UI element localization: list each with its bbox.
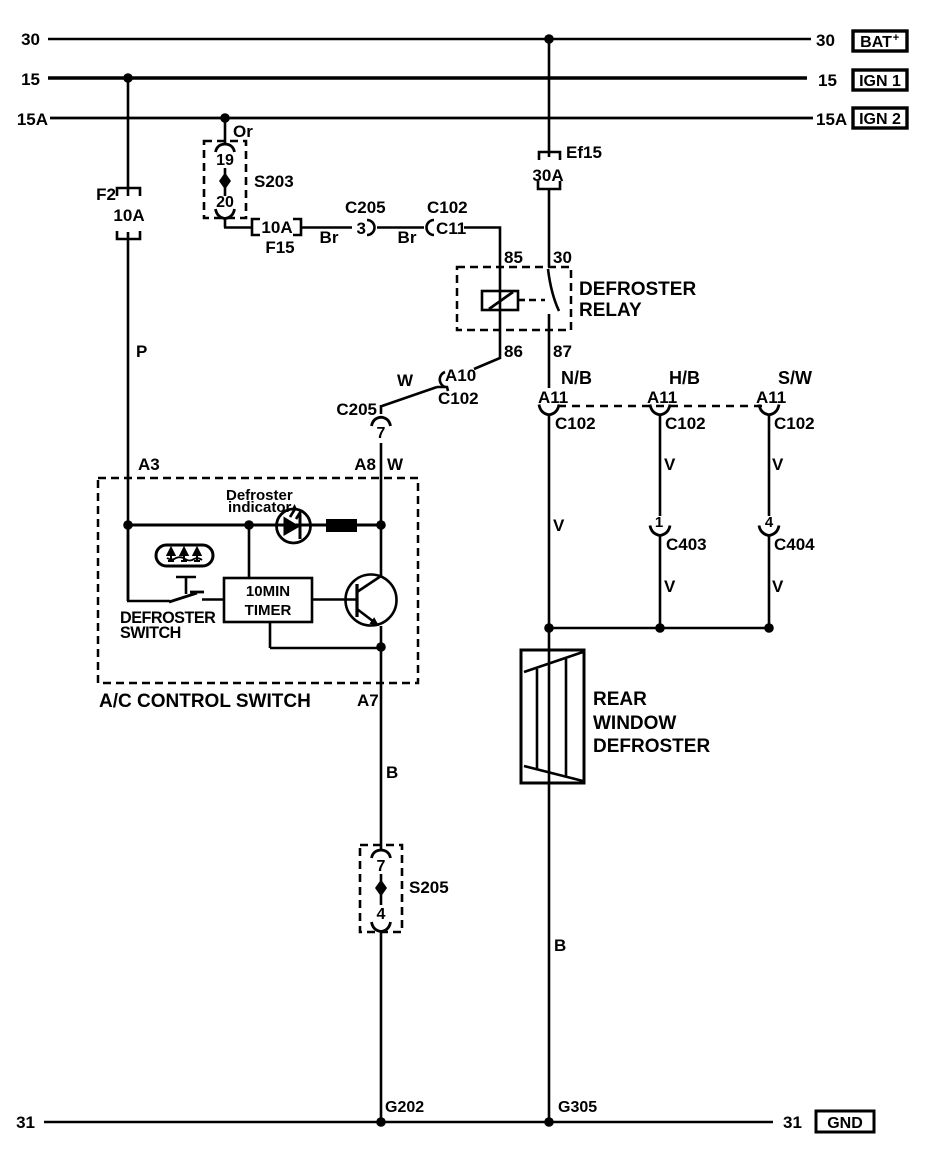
svg-text:H/B: H/B [669, 368, 700, 388]
svg-text:10A: 10A [261, 218, 292, 237]
svg-text:15: 15 [21, 70, 40, 89]
svg-text:1: 1 [655, 514, 663, 531]
svg-text:C102: C102 [438, 389, 479, 408]
svg-text:W: W [387, 455, 404, 474]
svg-text:V: V [664, 577, 676, 596]
svg-text:A7: A7 [357, 691, 379, 710]
svg-text:Ef15: Ef15 [566, 143, 602, 162]
svg-text:A11: A11 [647, 388, 677, 407]
svg-text:S203: S203 [254, 172, 294, 191]
svg-text:Br: Br [398, 228, 417, 247]
svg-text:V: V [772, 455, 784, 474]
svg-text:C102: C102 [555, 414, 596, 433]
svg-text:15: 15 [818, 71, 837, 90]
svg-text:10A: 10A [113, 206, 144, 225]
svg-text:C102: C102 [427, 198, 468, 217]
svg-text:20: 20 [216, 194, 234, 211]
svg-text:A11: A11 [756, 388, 786, 407]
svg-text:P: P [136, 342, 147, 361]
svg-text:C11: C11 [436, 219, 466, 238]
svg-text:4: 4 [377, 906, 386, 923]
svg-text:S/W: S/W [778, 368, 812, 388]
svg-text:C404: C404 [774, 535, 815, 554]
svg-text:V: V [664, 455, 676, 474]
svg-text:SWITCH: SWITCH [120, 624, 181, 642]
svg-text:G305: G305 [558, 1099, 597, 1116]
svg-text:87: 87 [553, 342, 572, 361]
svg-text:V: V [772, 577, 784, 596]
svg-text:N/B: N/B [561, 368, 592, 388]
svg-text:30: 30 [553, 248, 572, 267]
svg-text:A/C CONTROL SWITCH: A/C CONTROL SWITCH [99, 691, 311, 712]
svg-text:7: 7 [377, 425, 386, 442]
svg-text:C403: C403 [666, 535, 707, 554]
svg-text:B: B [554, 936, 566, 955]
svg-text:A3: A3 [138, 455, 160, 474]
svg-text:Br: Br [320, 228, 339, 247]
svg-text:W: W [397, 371, 414, 390]
svg-text:DEFROSTER: DEFROSTER [593, 736, 710, 757]
svg-text:WINDOW: WINDOW [593, 713, 676, 734]
svg-text:DEFROSTER: DEFROSTER [579, 279, 696, 300]
svg-text:30: 30 [816, 31, 835, 50]
svg-text:F2: F2 [96, 185, 116, 204]
svg-text:C205: C205 [336, 400, 377, 419]
svg-text:IGN 2: IGN 2 [859, 111, 901, 128]
svg-text:A10: A10 [445, 366, 476, 385]
svg-text:A8: A8 [354, 455, 376, 474]
svg-text:V: V [553, 516, 565, 535]
svg-text:10MIN: 10MIN [246, 583, 290, 600]
svg-text:B: B [386, 763, 398, 782]
svg-text:S205: S205 [409, 878, 449, 897]
svg-text:C102: C102 [665, 414, 706, 433]
svg-text:31: 31 [16, 1113, 35, 1132]
svg-text:IGN 1: IGN 1 [859, 73, 901, 90]
svg-text:86: 86 [504, 342, 523, 361]
svg-text:30: 30 [21, 30, 40, 49]
svg-text:3: 3 [357, 219, 366, 238]
svg-text:15A: 15A [816, 110, 847, 129]
svg-text:19: 19 [216, 152, 234, 169]
svg-text:C102: C102 [774, 414, 815, 433]
svg-text:4: 4 [765, 514, 774, 531]
svg-text:+: + [893, 32, 899, 44]
svg-text:31: 31 [783, 1113, 802, 1132]
svg-text:7: 7 [377, 858, 386, 875]
svg-text:F15: F15 [265, 238, 294, 257]
svg-text:RELAY: RELAY [579, 300, 642, 321]
svg-text:REAR: REAR [593, 689, 647, 710]
svg-text:85: 85 [504, 248, 523, 267]
svg-text:BAT: BAT [860, 34, 892, 51]
svg-text:15A: 15A [17, 110, 48, 129]
svg-text:G202: G202 [385, 1099, 424, 1116]
svg-text:A11: A11 [538, 388, 568, 407]
svg-text:Or: Or [233, 122, 253, 141]
svg-text:GND: GND [827, 1115, 863, 1132]
svg-text:C205: C205 [345, 198, 386, 217]
svg-text:TIMER: TIMER [245, 602, 292, 619]
